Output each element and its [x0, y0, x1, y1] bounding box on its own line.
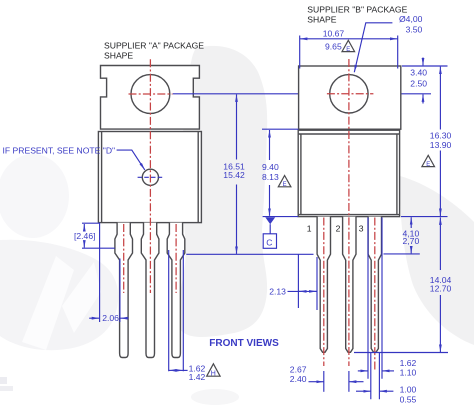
svg-text:3: 3: [359, 223, 364, 233]
watermark corner marks bottom-left: [0, 377, 7, 384]
svg-text:1: 1: [307, 223, 312, 233]
dim 9.40/8.13 line: [269, 130, 271, 160]
svg-text:16.30: 16.30: [430, 130, 452, 140]
watermark white cutouts: [22, 256, 74, 350]
dim 3.40/2.50 arrows: [422, 58, 424, 66]
svg-text:E: E: [346, 47, 350, 53]
svg-text:SHAPE: SHAPE: [104, 51, 133, 61]
datum C extension line: [263, 216, 299, 218]
dim [2.46] extension lines: [82, 223, 115, 248]
svg-text:2: 2: [336, 223, 341, 233]
dim 14.04/12.70 line: [439, 217, 441, 270]
body-bottom extension line right (blue): [401, 216, 448, 218]
dim 10.67/9.65 extension lines: [300, 36, 398, 69]
datum C filled triangle: [265, 217, 275, 224]
datum C stem: [269, 224, 271, 234]
svg-text:2.13: 2.13: [269, 286, 286, 296]
svg-text:1.10: 1.10: [400, 367, 417, 377]
dim 4,10/2,70 arrows: [410, 217, 412, 228]
watermark blob bottom-left: [0, 240, 118, 350]
package A pin3 centerline (red): [175, 224, 177, 293]
dim 1.00/0.55 arrows: [356, 390, 371, 392]
dim 1.62/1.42 arrows: [169, 369, 176, 371]
dim 2.13 extension lines: [298, 254, 317, 310]
svg-text:SUPPLIER "A" PACKAGE: SUPPLIER "A" PACKAGE: [104, 41, 204, 51]
hole-center extension line A to B (blue): [173, 93, 327, 95]
package A pin 2: [141, 223, 159, 358]
note flag triangle H: [207, 364, 220, 376]
package A tab with notches: [101, 66, 200, 130]
svg-text:IF PRESENT, SEE NOTE "D": IF PRESENT, SEE NOTE "D": [3, 145, 116, 155]
svg-text:1.42: 1.42: [189, 372, 206, 382]
svg-text:2.40: 2.40: [290, 374, 307, 384]
svg-text:13.90: 13.90: [430, 140, 452, 150]
package B vertical centerline (red): [348, 59, 350, 366]
dim [2.46] arrows: [83, 224, 85, 232]
stub-bottom extension line (blue): [384, 253, 420, 255]
dim 2.13 line and arrows: [288, 290, 318, 292]
svg-text:15.42: 15.42: [223, 170, 245, 180]
svg-text:SHAPE: SHAPE: [307, 14, 336, 24]
package A body: [98, 132, 201, 223]
svg-text:12.70: 12.70: [430, 284, 452, 294]
dia 4,00/3.50 leader: [354, 23, 392, 73]
package A pin1 centerline (red): [123, 224, 125, 293]
package A pin 1: [115, 223, 133, 358]
datum C box: [263, 234, 276, 249]
svg-text:2.50: 2.50: [410, 79, 427, 89]
svg-text:Ø4,00: Ø4,00: [399, 14, 423, 24]
dim 16.30/13.90 line: [439, 67, 441, 130]
watermark faint blob left-middle: [0, 154, 69, 238]
package A vertical centerline (red): [149, 59, 151, 293]
pin2 centerline blue extension: [348, 371, 350, 392]
package B pin3 centerline (red): [374, 218, 376, 371]
svg-text:[2.46]: [2.46]: [74, 231, 96, 241]
dim 2.67/2.40 arrows: [309, 381, 324, 383]
dim 2.06 arrows and text: [89, 317, 99, 319]
note flag triangle E (16.30): [422, 155, 435, 166]
svg-text:E: E: [426, 162, 430, 168]
package A note-D hole: [142, 169, 158, 185]
package B mounting hole: [330, 75, 368, 113]
svg-text:1.00: 1.00: [400, 385, 417, 395]
svg-text:3.50: 3.50: [406, 24, 423, 34]
package B tab: [299, 66, 401, 129]
svg-text:FRONT VIEWS: FRONT VIEWS: [209, 338, 279, 349]
svg-text:0.55: 0.55: [400, 395, 417, 405]
dim 1.62/1.10 arrows: [358, 370, 368, 372]
dim 9.40/8.13 body-top extension: [262, 128, 299, 130]
pin1 centerline blue extension: [323, 371, 325, 392]
package B body inner mold lines: [298, 134, 399, 215]
shoulder extension line (blue): [186, 253, 313, 255]
package A pin 3: [167, 223, 185, 358]
tab-top extension line (blue): [402, 65, 448, 67]
pin3 stub-width extension lines: [368, 218, 382, 379]
package A hole horizontal centerline (red): [129, 93, 173, 95]
svg-text:3.40: 3.40: [410, 68, 427, 78]
package B hole horizontal centerline (red): [327, 93, 374, 95]
package B pin 1: [317, 217, 330, 353]
pin-tip extension line (blue): [354, 352, 448, 354]
dim 10.67/9.65 line with arrows: [300, 38, 348, 40]
svg-text:H: H: [211, 371, 216, 378]
package B body: [298, 130, 399, 216]
package A mounting hole: [131, 75, 170, 114]
note D hole center dashes (blue): [138, 176, 164, 178]
dim 2.06 extension lines: [100, 223, 120, 322]
svg-text:2.06: 2.06: [102, 313, 119, 323]
svg-text:C: C: [266, 237, 272, 247]
note flag triangle E (10.67): [342, 40, 355, 51]
package B pin1 centerline (red): [323, 218, 325, 367]
svg-text:SUPPLIER "B" PACKAGE: SUPPLIER "B" PACKAGE: [307, 4, 407, 14]
svg-text:E: E: [283, 182, 287, 188]
package A body inner mold lines: [102, 132, 199, 223]
dim 16.51/15.42 vertical line: [236, 94, 238, 159]
svg-text:10.67: 10.67: [323, 29, 345, 39]
svg-text:2,70: 2,70: [403, 236, 420, 246]
svg-text:9.40: 9.40: [262, 162, 279, 172]
watermark blob right edge: [400, 176, 474, 345]
package B pin 3: [368, 217, 381, 353]
watermark bump bottom center: [191, 389, 239, 405]
svg-text:9.65: 9.65: [325, 42, 342, 52]
pin3 width extension lines A: [169, 250, 184, 371]
pin3 tip-width extension lines: [371, 353, 380, 400]
note flag triangle E (9.40): [278, 176, 291, 187]
watermark band center: [177, 46, 267, 337]
hole-center extension right of B (blue): [373, 93, 431, 95]
package B pin 2: [343, 217, 356, 353]
svg-text:8.13: 8.13: [262, 172, 279, 182]
